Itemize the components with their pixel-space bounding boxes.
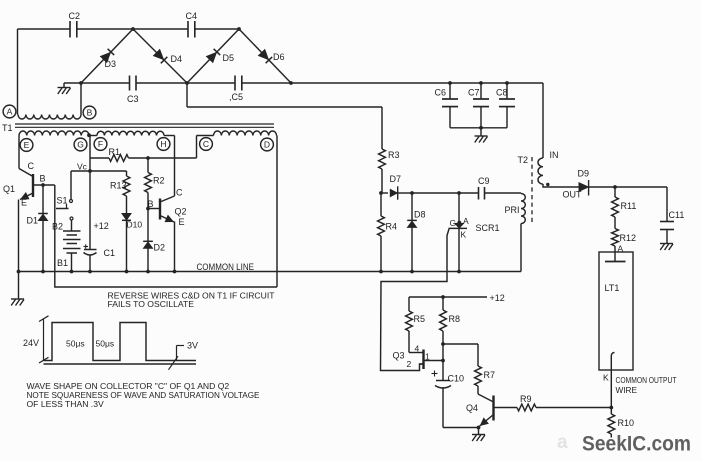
diode D3 xyxy=(81,29,133,83)
wire D9 to C11 corner xyxy=(589,186,667,188)
svg-text:R10: R10 xyxy=(618,418,635,428)
wire C1 to common rail xyxy=(89,255,91,272)
svg-text:C7: C7 xyxy=(468,88,480,98)
capacitor C6 xyxy=(435,83,459,128)
wire C3 to node xyxy=(136,82,187,84)
wire D1 lower lead xyxy=(42,221,44,272)
svg-text:C8: C8 xyxy=(496,88,508,98)
svg-text:LT1: LT1 xyxy=(605,283,620,293)
svg-text:D9: D9 xyxy=(578,169,590,179)
svg-text:C: C xyxy=(176,188,183,198)
wire G-F tap link xyxy=(89,135,97,137)
wire T1 primary A lead xyxy=(17,29,19,115)
capacitor C9 xyxy=(478,176,490,200)
wire C2 to node xyxy=(77,28,133,30)
svg-text:C2: C2 xyxy=(69,11,81,21)
node rail D10 xyxy=(125,270,129,274)
wire H winding lead to Q2 collector xyxy=(174,136,176,197)
wire down to R3 xyxy=(381,107,383,149)
SCR1 anode lead xyxy=(458,193,460,224)
node rail D2 xyxy=(146,270,150,274)
node Vc junction xyxy=(88,169,92,173)
node R8 bottom junction xyxy=(441,342,445,346)
svg-text:R3: R3 xyxy=(388,150,400,160)
svg-text:24V: 24V xyxy=(23,338,39,348)
terminal D xyxy=(261,138,274,151)
svg-text:a: a xyxy=(557,432,568,453)
T1 reference label xyxy=(2,123,13,133)
svg-text:FAILS TO OSCILLATE: FAILS TO OSCILLATE xyxy=(108,299,195,309)
SCR1 gate-anode labels xyxy=(450,216,470,228)
wire Q2 base lead xyxy=(148,208,160,210)
diode D10 xyxy=(122,214,142,230)
switch S1 xyxy=(56,171,73,220)
node rail battery xyxy=(70,270,74,274)
wire bus to ground xyxy=(480,128,482,136)
svg-text:B1: B1 xyxy=(57,258,68,268)
svg-text:E: E xyxy=(21,198,27,208)
capacitor C3 xyxy=(127,76,139,105)
diode D2 xyxy=(143,241,165,252)
wire T1 primary B lead xyxy=(80,83,82,115)
wire Q1 base feedback run xyxy=(55,185,277,287)
diode D1 xyxy=(27,214,48,226)
wire SCR1 cathode to rail xyxy=(458,228,460,271)
svg-text:1: 1 xyxy=(425,352,430,362)
svg-text:R11: R11 xyxy=(621,201,637,211)
capacitor C8 xyxy=(496,83,515,128)
svg-text:Q3: Q3 xyxy=(393,351,405,361)
svg-text:F: F xyxy=(98,139,103,149)
svg-text:C1: C1 xyxy=(104,248,116,258)
terminal A xyxy=(3,105,16,118)
svg-text:D: D xyxy=(264,140,270,150)
wire top bus from T1 primary to C2 xyxy=(18,28,71,30)
wire C11 lead xyxy=(666,187,668,222)
svg-text:C6: C6 xyxy=(435,88,447,98)
node T2 polarity dot xyxy=(546,183,549,186)
node rail Q2 emitter xyxy=(173,270,177,274)
svg-text:G: G xyxy=(77,140,84,150)
node Q3 pin1 junction xyxy=(441,359,445,363)
wire D7 to D8 node xyxy=(397,192,412,194)
svg-text:R1: R1 xyxy=(109,147,121,157)
inductor T2 secondary IN xyxy=(538,150,559,184)
node ground bus center xyxy=(479,126,483,130)
wire PRI to common rail xyxy=(520,224,522,272)
transistor Q1 xyxy=(3,161,46,208)
wire C5 to node xyxy=(242,82,291,84)
node rail Q1 emitter xyxy=(17,270,21,274)
svg-text:+12: +12 xyxy=(490,293,505,303)
node Q1 base/D1 junction xyxy=(41,183,45,187)
svg-text:D10: D10 xyxy=(127,220,143,230)
svg-text:A: A xyxy=(463,216,469,226)
svg-text:R5: R5 xyxy=(414,314,426,324)
battery B2/B1 xyxy=(52,222,81,269)
capacitor C7 xyxy=(468,83,489,128)
diode D9 xyxy=(578,169,590,196)
svg-text:R7: R7 xyxy=(484,370,496,380)
wire R8 node to C10 xyxy=(442,344,444,381)
node D6/lower bus junction xyxy=(289,81,293,85)
wire lower bus to T2 xyxy=(291,82,543,84)
thyristor SCR1 xyxy=(449,223,500,240)
svg-text:R8: R8 xyxy=(449,314,461,324)
wire node to C4 xyxy=(133,28,188,30)
terminal B xyxy=(83,106,96,119)
svg-text:COMMON OUTPUT: COMMON OUTPUT xyxy=(616,376,677,385)
node SCR anode junction xyxy=(457,191,461,195)
svg-text:C9: C9 xyxy=(478,176,490,186)
node D8 junction xyxy=(410,191,414,195)
svg-text:A: A xyxy=(7,107,13,117)
terminal E xyxy=(20,139,33,152)
LT1 cathode lead xyxy=(611,353,614,371)
svg-text:E: E xyxy=(179,217,185,227)
diode D5 xyxy=(187,29,239,83)
wire battery to common rail xyxy=(71,253,73,272)
resistor R8 xyxy=(440,297,460,344)
resistor R11 xyxy=(612,187,637,229)
waveform base line xyxy=(44,363,197,365)
svg-text:D6: D6 xyxy=(273,52,285,62)
svg-text:C: C xyxy=(28,161,35,171)
resistor R10 xyxy=(608,408,634,438)
svg-text:R13: R13 xyxy=(110,181,127,191)
wire node to C5 xyxy=(187,82,235,84)
svg-text:B2: B2 xyxy=(52,222,63,232)
resistor R7 xyxy=(475,366,495,394)
node C4/D5/D6 junction xyxy=(237,27,241,31)
wire D8 cathode lead xyxy=(411,193,413,220)
node rail D1 xyxy=(41,270,45,274)
svg-text:D8: D8 xyxy=(414,210,426,220)
diode D4 xyxy=(133,29,187,83)
node rail SCR cathode xyxy=(457,270,461,274)
wire D8 node to SCR node xyxy=(412,192,459,194)
svg-text:Q4: Q4 xyxy=(466,403,478,413)
wire top bus down to T2 IN xyxy=(542,83,544,158)
svg-text:K: K xyxy=(603,373,609,383)
wire D10 to common rail xyxy=(126,221,128,272)
transistor Q2 xyxy=(148,188,187,228)
capacitor C10 xyxy=(432,371,465,389)
svg-text:3V: 3V xyxy=(187,341,198,351)
LT1 anode electrode xyxy=(605,252,626,262)
svg-text:B: B xyxy=(148,199,154,209)
wire rail to chassis ground xyxy=(18,272,20,300)
svg-text:T1: T1 xyxy=(2,123,13,133)
svg-text:SCR1: SCR1 xyxy=(476,223,500,233)
wire C winding lead xyxy=(196,136,198,159)
svg-text:SeekIC.com: SeekIC.com xyxy=(582,432,691,456)
node D4/D5/C5 junction xyxy=(185,81,189,85)
terminal C xyxy=(200,138,213,151)
svg-text:PRI: PRI xyxy=(505,205,520,215)
svg-text:C: C xyxy=(203,139,209,149)
svg-text:4: 4 xyxy=(415,344,420,354)
svg-text:D5: D5 xyxy=(223,53,235,63)
wire E winding lead to Q1 collector xyxy=(18,136,20,169)
inductor T1 secondary winding F-H xyxy=(97,131,164,135)
resistor R9 xyxy=(517,394,536,411)
wire T2 OUT lead xyxy=(543,184,582,200)
wire horizontal run to R3 xyxy=(187,106,382,108)
resistor R4 xyxy=(378,193,397,272)
resistor R1 xyxy=(109,147,129,161)
svg-text:R2: R2 xyxy=(153,176,165,186)
common line label xyxy=(197,262,255,272)
capacitor C11 xyxy=(660,210,684,230)
svg-text:H: H xyxy=(160,139,166,149)
waveform 24V dimension xyxy=(23,316,49,363)
svg-text:D3: D3 xyxy=(105,59,117,69)
svg-text:D2: D2 xyxy=(154,243,166,253)
node G-F center tap junction xyxy=(87,133,91,137)
ground below C11 xyxy=(660,244,673,251)
wire D1 upper lead xyxy=(42,185,44,214)
svg-text:D4: D4 xyxy=(171,54,183,64)
svg-text:T2: T2 xyxy=(518,155,529,165)
waveform trace xyxy=(44,323,197,361)
node C2/D3/D4 junction xyxy=(131,27,135,31)
transistor Q4 xyxy=(466,394,494,427)
wire H winding end link xyxy=(164,135,175,137)
node R3/D7/R4 junction xyxy=(379,191,383,195)
node rail D8 xyxy=(410,270,414,274)
ground below Q4 xyxy=(472,435,485,442)
node top bus C7 xyxy=(479,81,483,85)
wire D8 to rail xyxy=(411,227,413,271)
svg-text:IN: IN xyxy=(550,150,559,160)
inductor T2 primary PRI xyxy=(505,194,526,224)
svg-text:C11: C11 xyxy=(669,210,685,220)
svg-text:B: B xyxy=(87,108,93,118)
capacitor C1 xyxy=(84,244,116,258)
wire ground stub at B node xyxy=(64,83,81,88)
wire Q4 base lead xyxy=(494,407,518,409)
wire Vc line xyxy=(71,162,127,172)
wire C6-C8 ground bus xyxy=(450,127,507,129)
inductor T1 secondary winding E-G xyxy=(19,131,89,135)
wire lower bus B-node to C3 xyxy=(81,82,130,84)
resistor R12 xyxy=(612,229,636,254)
capacitor C2 xyxy=(69,11,81,38)
note reverse wires text xyxy=(108,291,276,310)
svg-text:Vc: Vc xyxy=(77,162,88,172)
wire R9 to R10 node xyxy=(536,407,611,409)
svg-text:R9: R9 xyxy=(520,394,532,404)
wire Q1 emitter to common rail xyxy=(18,200,20,272)
wire to D7 xyxy=(381,192,388,194)
terminal F xyxy=(94,138,107,151)
LT1 cathode labels xyxy=(603,373,677,396)
node R11 junction xyxy=(613,185,617,189)
wire R8 node to R7 xyxy=(443,344,478,366)
wire C9 to T2 primary xyxy=(485,192,522,194)
node R9/LT1/R10 junction xyxy=(609,406,613,410)
svg-text:Q1: Q1 xyxy=(3,184,15,194)
wire +12 supply line xyxy=(409,293,505,303)
svg-text:Q2: Q2 xyxy=(175,207,187,217)
svg-text:C10: C10 xyxy=(448,374,465,384)
svg-text:R4: R4 xyxy=(386,222,398,232)
wire Q1 base lead xyxy=(33,184,55,186)
wire SCR node to C9 xyxy=(459,192,479,194)
wire D2 upper lead xyxy=(147,209,149,242)
ground near transformer B terminal xyxy=(58,88,71,95)
wire +12 node to C1 xyxy=(90,171,109,250)
svg-text:,C5: ,C5 xyxy=(229,92,243,102)
svg-text:50μs: 50μs xyxy=(66,339,85,349)
resistor R5 xyxy=(406,297,425,353)
svg-text:D1: D1 xyxy=(27,216,39,226)
capacitor C5 xyxy=(229,76,243,103)
wire from D4-D5 node down xyxy=(186,83,188,107)
diode D7 xyxy=(390,174,402,200)
resistor R13 xyxy=(110,171,130,214)
wire common line rail xyxy=(19,271,522,273)
svg-text:+12: +12 xyxy=(94,221,109,231)
wire center tap to Vc node xyxy=(89,136,91,172)
svg-text:B: B xyxy=(40,174,46,184)
svg-text:OF LESS THAN .3V: OF LESS THAN .3V xyxy=(27,399,104,409)
wire SCR1 gate run xyxy=(381,229,450,371)
T1 core lines xyxy=(15,124,274,127)
wire C11 to ground xyxy=(666,230,668,244)
resistor R2 xyxy=(145,158,165,209)
terminal G xyxy=(74,138,87,151)
ground below C7 xyxy=(475,136,488,143)
node Q4 emitter junction xyxy=(477,426,481,430)
watermark xyxy=(557,432,691,456)
node R1/R2 junction xyxy=(146,156,150,160)
node B/D3/ground junction xyxy=(79,81,83,85)
capacitor C4 xyxy=(186,11,198,38)
ground at lower left xyxy=(11,299,24,306)
node top bus C6 xyxy=(448,81,452,85)
svg-text:E: E xyxy=(24,140,30,150)
inductor T1 feedback winding C-D xyxy=(197,131,277,136)
transistor Q3 xyxy=(393,344,444,370)
svg-text:S1: S1 xyxy=(57,196,68,206)
svg-text:WIRE: WIRE xyxy=(616,386,638,395)
diode D8 xyxy=(407,210,425,228)
wire C4 to node xyxy=(195,28,239,30)
node top bus C8 xyxy=(505,81,509,85)
node R2/Q2 base/D2 junction xyxy=(146,207,150,211)
T2 core dashed line xyxy=(518,155,533,223)
waveform caption xyxy=(27,381,260,409)
wire LT1 to R10 node xyxy=(610,370,612,408)
wire S1 to battery xyxy=(71,220,73,231)
wire R1 to C winding lead xyxy=(129,157,197,159)
svg-text:K: K xyxy=(461,230,467,240)
svg-text:D7: D7 xyxy=(390,174,402,184)
waveform 3V marker xyxy=(169,341,199,370)
wire C10 to Q4 emitter node xyxy=(443,387,479,428)
terminal H xyxy=(157,138,170,151)
wire R1 left lead xyxy=(90,157,109,159)
wire emitter node to ground xyxy=(478,428,480,435)
diode D6 xyxy=(239,29,291,83)
node rail C1 xyxy=(88,270,92,274)
lamp LT1 body xyxy=(599,252,633,370)
svg-text:50μs: 50μs xyxy=(96,339,115,349)
inductor T1 primary winding A-B xyxy=(18,114,81,119)
svg-text:C4: C4 xyxy=(186,11,198,21)
svg-text:COMMON LINE: COMMON LINE xyxy=(197,262,255,272)
node R8 top junction xyxy=(441,295,445,299)
wire D2 lower lead xyxy=(147,248,149,271)
wire R5 to Q3 pin 4 xyxy=(409,352,424,354)
svg-text:C3: C3 xyxy=(127,94,139,104)
resistor R3 xyxy=(379,149,400,193)
svg-text:2: 2 xyxy=(407,359,412,369)
svg-text:R12: R12 xyxy=(620,233,637,243)
wire D winding lead xyxy=(276,136,278,288)
node rail R4 xyxy=(379,270,383,274)
waveform 50us labels xyxy=(66,339,114,349)
wire Q2 emitter to common rail xyxy=(174,222,176,272)
